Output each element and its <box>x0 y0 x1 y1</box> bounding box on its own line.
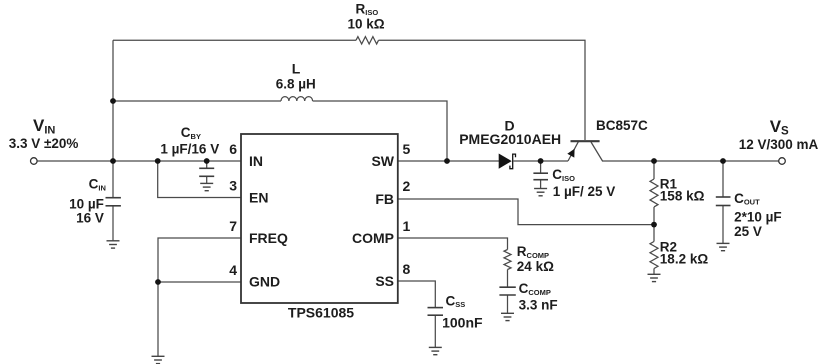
svg-text:1 µF/ 25 V: 1 µF/ 25 V <box>553 184 616 199</box>
svg-text:VS: VS <box>770 117 789 138</box>
svg-text:3.3 V ±20%: 3.3 V ±20% <box>9 136 79 151</box>
svg-text:CCOMP: CCOMP <box>519 281 551 297</box>
svg-text:7: 7 <box>229 218 237 234</box>
svg-text:10 µF: 10 µF <box>69 196 104 211</box>
svg-text:1 µF/16 V: 1 µF/16 V <box>160 142 219 157</box>
svg-text:IN: IN <box>249 153 263 169</box>
svg-text:BC857C: BC857C <box>596 118 648 133</box>
svg-text:25 V: 25 V <box>734 224 762 239</box>
svg-text:CBY: CBY <box>181 125 201 141</box>
svg-text:CSS: CSS <box>446 293 466 309</box>
svg-text:8: 8 <box>403 261 411 277</box>
svg-text:18.2 kΩ: 18.2 kΩ <box>660 251 709 266</box>
svg-text:3.3 nF: 3.3 nF <box>519 298 558 313</box>
svg-text:CIN: CIN <box>89 177 106 193</box>
svg-text:6.8 µH: 6.8 µH <box>276 76 316 91</box>
svg-text:4: 4 <box>229 262 237 278</box>
svg-text:158 kΩ: 158 kΩ <box>660 189 705 204</box>
svg-text:1: 1 <box>403 218 411 234</box>
svg-text:VIN: VIN <box>33 116 55 137</box>
svg-text:RISO: RISO <box>356 2 379 18</box>
svg-text:2*10 µF: 2*10 µF <box>734 210 782 225</box>
svg-text:EN: EN <box>249 189 268 205</box>
svg-text:SW: SW <box>371 153 394 169</box>
svg-text:SS: SS <box>375 273 394 289</box>
svg-text:FREQ: FREQ <box>249 230 288 246</box>
svg-text:PMEG2010AEH: PMEG2010AEH <box>459 131 561 147</box>
svg-text:100nF: 100nF <box>442 314 483 330</box>
svg-text:FB: FB <box>375 191 394 207</box>
svg-text:L: L <box>292 60 301 76</box>
svg-text:3: 3 <box>229 178 237 194</box>
svg-text:COMP: COMP <box>352 230 394 246</box>
svg-text:10 kΩ: 10 kΩ <box>347 16 384 31</box>
svg-text:16 V: 16 V <box>76 210 104 225</box>
svg-text:COUT: COUT <box>734 191 760 207</box>
svg-text:RCOMP: RCOMP <box>517 244 549 260</box>
svg-text:6: 6 <box>229 141 237 157</box>
svg-text:GND: GND <box>249 273 280 289</box>
svg-text:2: 2 <box>403 178 411 194</box>
svg-text:5: 5 <box>403 141 411 157</box>
svg-text:CISO: CISO <box>552 167 575 183</box>
svg-text:24 kΩ: 24 kΩ <box>517 259 554 274</box>
svg-text:TPS61085: TPS61085 <box>288 304 354 320</box>
svg-text:12 V/300 mA: 12 V/300 mA <box>739 137 819 152</box>
